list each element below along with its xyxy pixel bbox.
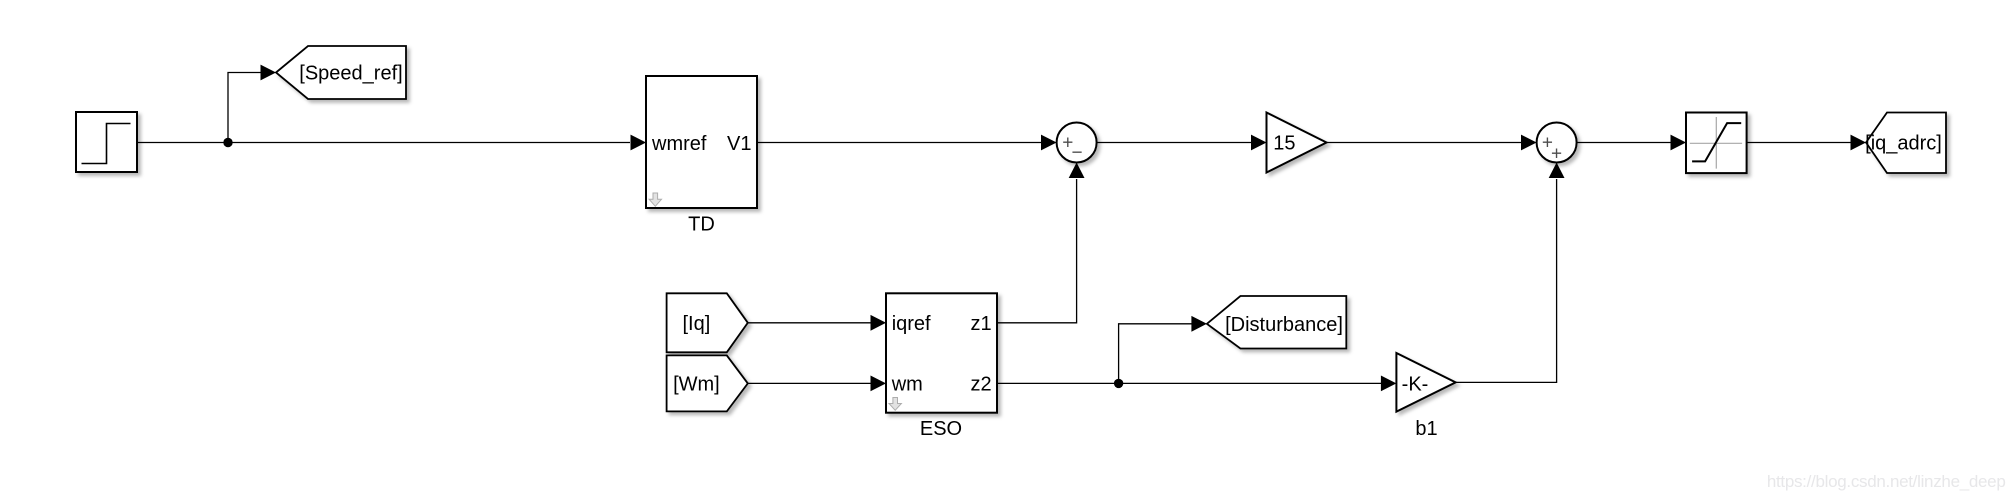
arrowhead into iq_adrc goto	[1851, 135, 1867, 151]
ESO link-down badge	[889, 398, 901, 411]
wire: gain 15 to sum2	[1327, 142, 1522, 144]
node A: junction dot on step output	[223, 138, 232, 147]
arrowhead into ESO iqref	[871, 315, 887, 331]
svg-text:[Speed_ref]: [Speed_ref]	[299, 63, 402, 85]
svg-text:V1: V1	[727, 133, 751, 155]
svg-text:-K-: -K-	[1402, 373, 1429, 395]
svg-text:[Iq]: [Iq]	[683, 313, 711, 335]
svg-text:15: 15	[1273, 133, 1295, 155]
svg-text:[iq_adrc]: [iq_adrc]	[1865, 133, 1942, 155]
arrowhead into sum1 south	[1069, 163, 1085, 179]
wire: saturation to iq_adrc	[1747, 142, 1851, 144]
wire: sum2 to saturation	[1577, 142, 1671, 144]
arrowhead into Speed_ref goto	[261, 65, 277, 81]
arrowhead into TD	[631, 135, 647, 151]
from tag [Iq]	[667, 293, 748, 352]
saturation curve	[1692, 123, 1741, 161]
svg-text:wm: wm	[891, 373, 923, 395]
from tag [Wm]	[667, 355, 748, 411]
wire: branch up from z2 to Disturbance goto	[1119, 324, 1192, 384]
sum block sum2 (+,+)	[1537, 123, 1577, 163]
TD link-down badge	[649, 193, 661, 206]
arrowhead into sum2 west	[1521, 135, 1537, 151]
wire: branch up from junction to Speed_ref goto	[228, 73, 261, 143]
step block (Step source)	[76, 112, 137, 172]
svg-text:z1: z1	[970, 313, 991, 335]
goto tag [iq_adrc]	[1866, 113, 1946, 174]
svg-text:[Disturbance]: [Disturbance]	[1225, 314, 1343, 336]
svg-text:−: −	[1071, 143, 1082, 164]
gain b1 (-K-)	[1396, 353, 1455, 412]
arrowhead into Disturbance goto	[1191, 316, 1207, 332]
svg-text:z2: z2	[970, 373, 991, 395]
node B: junction dot on z2 wire	[1114, 379, 1123, 388]
svg-text:[Wm]: [Wm]	[673, 373, 720, 395]
wire: TD output to sum1	[757, 142, 1041, 144]
saturation block	[1686, 113, 1747, 174]
svg-text:https://blog.csdn.net/linzhe_d: https://blog.csdn.net/linzhe_deep	[1767, 472, 2006, 491]
goto tag [Speed_ref]	[276, 46, 406, 99]
svg-text:wmref: wmref	[651, 133, 707, 155]
svg-text:+: +	[1551, 143, 1562, 164]
arrowhead into sum1 west	[1041, 135, 1057, 151]
wire: b1 to sum2 south	[1456, 179, 1557, 382]
svg-text:ESO: ESO	[920, 418, 962, 440]
goto tag [Disturbance]	[1207, 296, 1346, 349]
svg-text:iqref: iqref	[892, 313, 931, 335]
arrowhead into b1 gain	[1381, 376, 1397, 392]
arrowhead into ESO wm	[871, 376, 887, 392]
wire: ESO z1 up to sum1 south	[997, 179, 1077, 323]
svg-text:TD: TD	[688, 214, 715, 236]
wire: Iq to ESO iqref	[748, 322, 871, 324]
subsystem ESO	[886, 293, 997, 412]
arrowhead into sum2 south	[1549, 163, 1565, 179]
wire: Wm to ESO wm	[748, 382, 871, 384]
arrowhead into saturation	[1671, 135, 1687, 151]
wire: ESO z2 to b1 gain	[997, 382, 1381, 384]
saturation axes	[1690, 117, 1742, 169]
subsystem TD	[646, 76, 757, 208]
svg-text:b1: b1	[1415, 418, 1437, 440]
step icon	[82, 124, 131, 164]
gain 15	[1267, 113, 1327, 173]
sum block sum1 (+,-)	[1057, 123, 1097, 163]
wire: sum1 to gain 15	[1097, 142, 1251, 144]
wire: step output to junction and on to TD input	[137, 142, 630, 144]
arrowhead into gain 15	[1251, 135, 1267, 151]
